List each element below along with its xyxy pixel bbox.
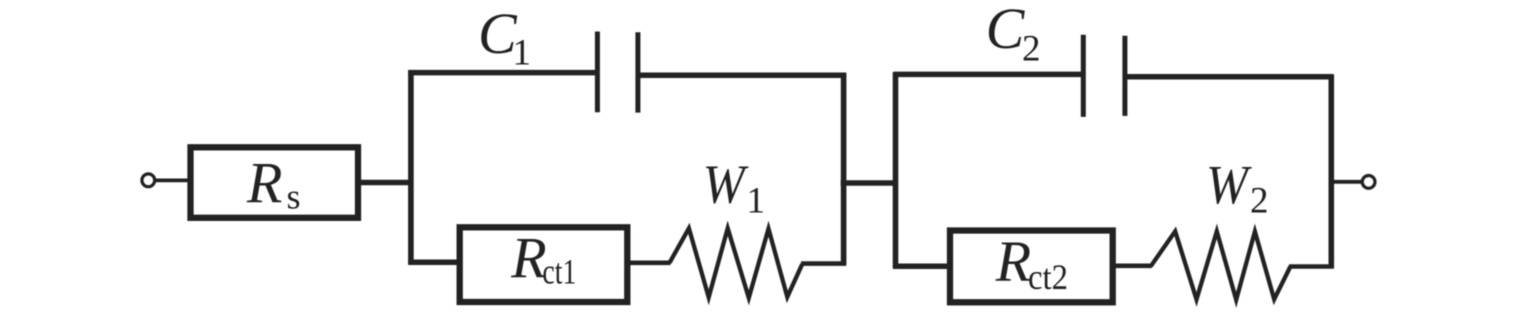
node A vertical (loop1 left) [408,70,414,264]
svg-text:C: C [986,0,1026,61]
wire: W2 to loop2 right vertical [1289,264,1334,269]
wire: loop2 to right terminal [1331,180,1362,184]
resistor Rs box [191,147,359,218]
svg-text:1: 1 [513,33,532,74]
loop2 right vertical [1329,75,1335,269]
capacitor C1 right plate [635,32,640,112]
resistor Rct2 box [950,231,1113,303]
svg-text:s: s [287,177,301,217]
svg-text:1: 1 [747,180,766,221]
svg-text:W: W [1206,154,1252,215]
svg-text:2: 2 [1250,181,1269,222]
Warburg element W2 zigzag [1151,231,1291,299]
label Rct2 [995,229,1068,297]
label Rs [246,151,301,217]
wire: loop1 top rail left [408,70,596,76]
label W2 [1206,154,1269,222]
svg-text:ct2: ct2 [1028,257,1068,297]
terminal right [1362,176,1375,189]
label W1 [703,154,765,222]
label C2 [986,0,1041,69]
capacitor C1 left plate [595,32,600,113]
wire: Rct1 to W1 [625,260,671,265]
svg-text:2: 2 [1022,29,1041,70]
capacitor C2 left plate [1081,35,1086,117]
capacitor C2 right plate [1122,36,1127,116]
wire: loop2 bottom rail left [893,263,951,269]
loop1 right vertical [841,73,847,265]
label C1 [478,1,531,73]
wire: loop1 bottom rail left [408,260,460,266]
wire: loop1 top rail right [638,72,846,78]
svg-text:ct1: ct1 [542,252,576,292]
svg-text:W: W [703,154,749,215]
wire: node B connector between loops [841,180,898,186]
svg-text:R: R [246,151,282,216]
wire: loop2 top rail left [893,72,1083,78]
wire: Rs to node A [358,180,413,186]
resistor Rct1 box [460,227,628,302]
Warburg element W1 zigzag [670,228,803,298]
wire: Rct2 to W2 [1110,263,1152,268]
label Rct1 [510,226,576,292]
svg-text:R: R [995,229,1031,294]
loop2 left vertical [893,72,899,268]
svg-text:R: R [510,226,546,291]
wire: left terminal to Rs [156,178,191,182]
wire: loop2 top rail right [1125,74,1334,80]
wire: W1 to loop1 right vertical [801,261,846,266]
terminal left [142,174,155,187]
